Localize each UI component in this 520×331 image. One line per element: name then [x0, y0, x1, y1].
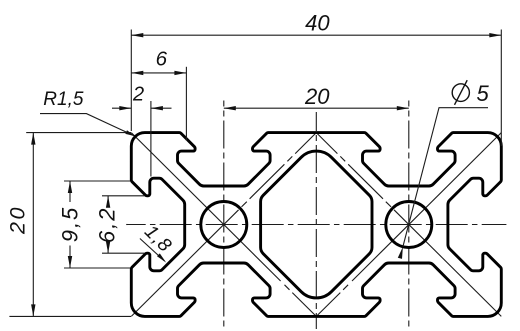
svg-text:2: 2: [132, 83, 144, 105]
svg-text:20: 20: [304, 84, 330, 109]
svg-text:40: 40: [305, 10, 330, 35]
svg-text:5: 5: [476, 81, 489, 106]
svg-text:R1,5: R1,5: [43, 89, 84, 110]
svg-text:9,5: 9,5: [58, 206, 83, 243]
svg-text:6: 6: [156, 47, 168, 70]
svg-text:6,2: 6,2: [95, 207, 120, 244]
svg-text:20: 20: [6, 205, 30, 235]
